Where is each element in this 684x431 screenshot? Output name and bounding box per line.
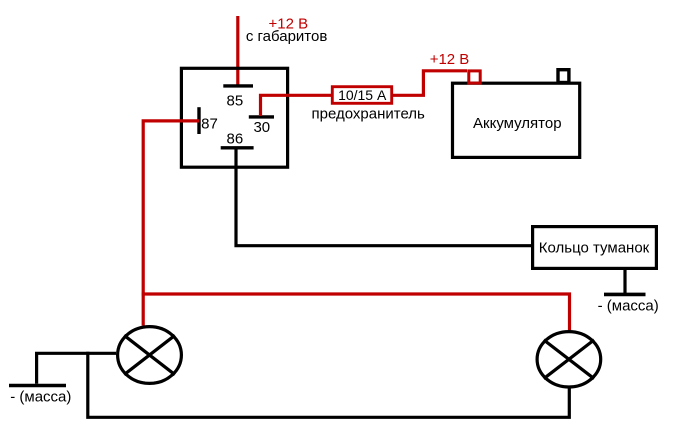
- wire relay pin 30 to fuse: [261, 95, 333, 116]
- svg-text:предохранитель: предохранитель: [312, 106, 426, 123]
- svg-text:Аккумулятор: Аккумулятор: [473, 115, 562, 132]
- ground bar (left lamp): [9, 384, 66, 388]
- relay pin 85 terminal bar: [223, 84, 253, 87]
- relay pin 87 terminal bar: [197, 107, 200, 134]
- wire bottom loop joining lamps grounds: [88, 352, 570, 418]
- svg-text:- (масса): - (масса): [598, 298, 659, 315]
- battery BT1 body: [453, 83, 580, 157]
- left lamp L1 bulb: [118, 327, 182, 384]
- fog ring switch box Кольцо туманок: [533, 227, 657, 269]
- relay pin 86 terminal bar: [221, 146, 254, 149]
- svg-text:- (масса): - (масса): [10, 389, 71, 406]
- wire branch to right lamp: [142, 294, 570, 330]
- wire relay pin 87 down to left lamp: [143, 121, 199, 326]
- wire +12V feed from parking lights down to relay pin 85: [236, 16, 239, 85]
- svg-text:с габаритов: с габаритов: [246, 28, 328, 45]
- svg-text:30: 30: [253, 119, 270, 136]
- svg-text:87: 87: [201, 116, 218, 133]
- svg-text:85: 85: [227, 92, 244, 109]
- svg-text:+12 В: +12 В: [430, 51, 470, 68]
- relay K1 body: [181, 68, 287, 167]
- battery positive terminal (red): [469, 71, 480, 83]
- ground bar (right, fog ring): [604, 293, 646, 297]
- wire fuse to battery positive terminal: [393, 71, 467, 96]
- relay pin 30 terminal bar: [249, 115, 274, 118]
- wire fog ring box to ground: [623, 269, 626, 294]
- svg-text:86: 86: [227, 131, 244, 148]
- svg-text:Кольцо туманок: Кольцо туманок: [539, 240, 650, 257]
- wire relay pin 86 to fog-light ring switch: [236, 149, 533, 246]
- svg-text:10/15 А: 10/15 А: [338, 87, 387, 103]
- battery negative terminal (black): [558, 70, 569, 83]
- fuse F1 10/15A body: [332, 87, 391, 104]
- right lamp L2 bulb: [537, 332, 601, 387]
- wire left lamp to left ground: [37, 353, 116, 383]
